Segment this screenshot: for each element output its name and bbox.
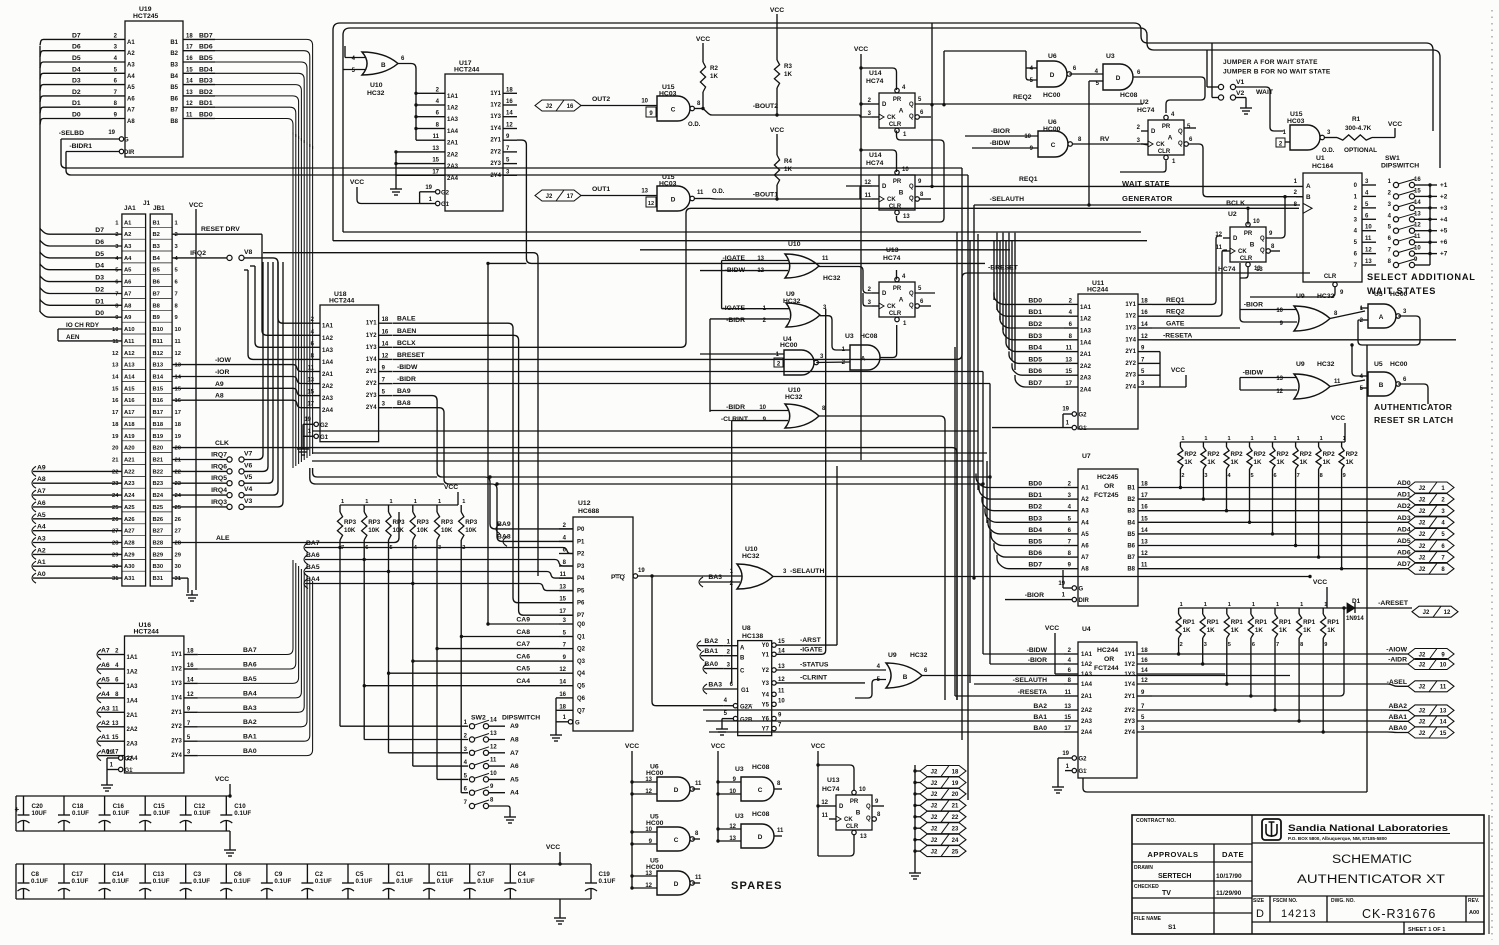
svg-text:BD3: BD3 [199, 78, 213, 85]
svg-text:17: 17 [1064, 726, 1071, 732]
wire U14-B D stub [846, 185, 872, 187]
svg-text:RP3: RP3 [344, 519, 357, 526]
svg-text:31: 31 [175, 576, 182, 582]
svg-text:17: 17 [1065, 381, 1072, 387]
svg-text:14: 14 [559, 680, 566, 686]
ground cap row1 [229, 831, 231, 845]
svg-text:Y5: Y5 [762, 702, 770, 708]
svg-text:A22: A22 [124, 469, 135, 475]
svg-text:BD6: BD6 [1028, 368, 1042, 375]
svg-text:J2: J2 [1419, 731, 1426, 737]
svg-text:IRQ3: IRQ3 [211, 499, 227, 506]
svg-text:U10: U10 [788, 387, 801, 394]
svg-text:2Y4: 2Y4 [490, 173, 501, 179]
svg-text:HC245: HC245 [1097, 474, 1118, 481]
wire BA8 drop [393, 408, 573, 542]
svg-text:G2: G2 [441, 191, 450, 197]
svg-text:B6: B6 [1127, 544, 1135, 550]
wire BD3 from U19 pin 14 [183, 84, 215, 86]
svg-text:B20: B20 [153, 446, 164, 452]
wire BD3 bus vertical [215, 85, 301, 141]
svg-text:+1: +1 [1440, 182, 1448, 189]
node tag J2/15 [1408, 727, 1454, 738]
svg-text:0.1UF: 0.1UF [356, 878, 373, 885]
svg-text:C: C [674, 837, 679, 844]
svg-text:16: 16 [1141, 310, 1148, 316]
wire U14-A CLR to U14-B CLR [897, 131, 945, 223]
svg-text:A4: A4 [127, 74, 135, 80]
svg-text:OUT2: OUT2 [592, 96, 610, 103]
svg-text:B7: B7 [170, 108, 178, 114]
svg-text:Q4: Q4 [577, 671, 586, 677]
node A8 tag at J1 pin 23 [32, 478, 36, 488]
wire BD6 from U19 pin 17 [183, 50, 215, 52]
svg-text:B9: B9 [153, 315, 161, 321]
svg-text:P0: P0 [577, 527, 585, 533]
Sandia logo [1262, 819, 1281, 840]
svg-text:C6: C6 [234, 871, 242, 878]
node +2 wait state tap [1428, 195, 1431, 198]
svg-text:12: 12 [559, 667, 566, 673]
wire A7 into U16 [97, 650, 101, 660]
svg-text:1: 1 [1297, 436, 1300, 442]
svg-text:29: 29 [175, 552, 182, 558]
node tag J2/23 [913, 827, 916, 830]
svg-text:13: 13 [778, 664, 785, 670]
svg-text:0.1UF: 0.1UF [234, 878, 251, 885]
switch SW2 pos 5 [469, 777, 474, 782]
svg-text:15: 15 [1440, 731, 1447, 737]
svg-text:-BIOR: -BIOR [1025, 592, 1044, 599]
svg-text:S1: S1 [1168, 924, 1176, 931]
capacitor C10 [225, 796, 227, 815]
wire BD7 from U19 pin 18 [183, 38, 215, 40]
svg-text:A14: A14 [124, 375, 135, 381]
svg-text:13: 13 [1256, 267, 1263, 273]
svg-text:28: 28 [112, 541, 119, 547]
svg-text:-ARST: -ARST [800, 637, 822, 644]
svg-text:A8: A8 [510, 737, 519, 744]
svg-text:C11: C11 [437, 871, 449, 878]
wire BA4 to U12 [305, 584, 573, 591]
svg-text:24: 24 [175, 493, 182, 499]
wire U9-A out to U3-A [820, 316, 850, 350]
wire BA6 to U12 [305, 560, 573, 567]
svg-text:A4: A4 [101, 691, 110, 698]
wire U4 input 2A4 [709, 731, 1064, 733]
svg-text:11: 11 [822, 813, 829, 819]
svg-text:1K: 1K [784, 71, 792, 78]
svg-text:IRQ6: IRQ6 [211, 463, 227, 470]
wire AD6 [1138, 556, 1408, 558]
svg-text:1K: 1K [710, 73, 718, 80]
wire D3 to U19 pin 6 [46, 84, 125, 86]
wire CA9 [488, 623, 559, 625]
svg-text:A19: A19 [124, 434, 135, 440]
svg-text:C19: C19 [599, 871, 611, 878]
wire -RESETA from U11 [1152, 339, 1456, 341]
wire -IOW J1 B13 to U18 [172, 365, 306, 372]
svg-text:A: A [899, 297, 904, 304]
svg-text:IRQ2: IRQ2 [190, 250, 206, 257]
svg-text:1A3: 1A3 [447, 117, 459, 123]
capacitor C20 [23, 796, 25, 815]
jumper V7 IRQ7 [172, 459, 227, 461]
wire mid pair right extension [490, 476, 990, 478]
wire U14-B PR [861, 150, 897, 172]
capacitor C6 [225, 864, 227, 883]
svg-text:10K: 10K [393, 527, 405, 534]
svg-text:U3: U3 [1106, 53, 1115, 60]
wire AEN J1 pin 11 [58, 340, 122, 342]
svg-text:Y1: Y1 [762, 652, 770, 658]
svg-text:B3: B3 [153, 244, 161, 250]
svg-text:JUMPER B FOR NO WAIT STATE: JUMPER B FOR NO WAIT STATE [1223, 69, 1331, 76]
svg-text:SW1: SW1 [1385, 155, 1400, 162]
svg-text:13: 13 [175, 363, 182, 369]
svg-text:D: D [839, 804, 844, 810]
svg-text:BA1: BA1 [1033, 714, 1047, 721]
svg-text:HC32: HC32 [742, 553, 760, 560]
svg-text:1Y1: 1Y1 [490, 91, 501, 97]
wire -SELAUTH upper [974, 204, 1300, 206]
capacitor C14 [104, 864, 106, 883]
svg-text:HC244: HC244 [1087, 287, 1108, 294]
node A1 tag at J1 pin 30 [32, 561, 36, 571]
svg-text:0.1UF: 0.1UF [437, 878, 454, 885]
svg-text:A7: A7 [127, 108, 135, 114]
svg-text:C16: C16 [113, 803, 125, 810]
wire -RESETA vertical [954, 347, 956, 696]
title block sheet row [1403, 922, 1405, 934]
clock triangle U1 [1303, 203, 1312, 213]
resistor RP2 4 [1226, 442, 1228, 447]
svg-text:2A1: 2A1 [127, 713, 139, 719]
svg-text:G1: G1 [1079, 426, 1088, 432]
svg-text:1: 1 [1251, 436, 1254, 442]
svg-text:1Y4: 1Y4 [1125, 337, 1136, 343]
node tag J2/24 [913, 838, 916, 841]
capacitor C11 [428, 864, 430, 883]
svg-text:B: B [903, 674, 908, 681]
svg-text:B19: B19 [153, 434, 164, 440]
wire U4 input 1A3 [1055, 673, 1064, 675]
svg-text:D2: D2 [72, 89, 81, 96]
svg-text:0.1UF: 0.1UF [31, 878, 48, 885]
node tag J2/22 [913, 815, 916, 818]
svg-text:CA8: CA8 [516, 629, 530, 636]
svg-text:CK: CK [1156, 142, 1165, 148]
svg-text:CHECKED: CHECKED [1134, 884, 1159, 890]
wire D2 to U19 pin 7 [46, 95, 125, 97]
svg-text:A1: A1 [101, 734, 110, 741]
node tag J2/25 [913, 849, 916, 852]
svg-text:1A2: 1A2 [127, 670, 139, 676]
svg-text:Y4: Y4 [762, 692, 770, 698]
svg-text:10: 10 [641, 99, 648, 105]
wire D1 to U19 pin 8 [46, 106, 125, 108]
svg-text:P5: P5 [577, 589, 585, 595]
svg-text:IRQ5: IRQ5 [211, 475, 227, 482]
wire D7 to J1 pin 2 [40, 228, 122, 234]
wire BALE [393, 323, 573, 603]
wire U4 input 2A3 [706, 720, 1064, 722]
svg-text:1: 1 [365, 499, 368, 505]
svg-text:RP1: RP1 [1303, 619, 1316, 626]
ground at U17 inputs [395, 184, 397, 189]
wire bottom return [1083, 778, 1367, 792]
svg-text:BD7: BD7 [1028, 562, 1042, 569]
svg-text:9: 9 [1343, 473, 1346, 479]
wire D1 to J1 pin 8 [40, 299, 122, 305]
svg-text:A30: A30 [124, 564, 135, 570]
svg-text:11: 11 [822, 256, 829, 262]
svg-text:A9: A9 [37, 464, 46, 471]
svg-text:C12: C12 [194, 803, 206, 810]
svg-text:HC00: HC00 [646, 820, 664, 827]
wire D2 to J1 pin 7 [40, 288, 122, 294]
svg-text:1Y1: 1Y1 [1125, 302, 1136, 308]
svg-text:B2: B2 [153, 232, 160, 238]
capacitor C8 [23, 864, 25, 883]
svg-text:WAIT STATES: WAIT STATES [1367, 286, 1436, 296]
IC U17 HCT244 [445, 74, 503, 211]
svg-text:G1: G1 [125, 768, 134, 774]
svg-text:1A3: 1A3 [127, 684, 139, 690]
svg-text:RP2: RP2 [1254, 451, 1267, 458]
svg-text:J2: J2 [1419, 532, 1426, 538]
svg-text:1A3: 1A3 [322, 348, 334, 354]
svg-text:D6: D6 [72, 44, 81, 51]
svg-text:BA0: BA0 [243, 748, 257, 755]
svg-text:A9: A9 [510, 723, 519, 730]
svg-text:U10: U10 [745, 546, 758, 553]
svg-text:HCT244: HCT244 [134, 629, 160, 636]
svg-text:14: 14 [175, 375, 182, 381]
svg-text:CLR: CLR [1324, 274, 1337, 280]
svg-text:9: 9 [1324, 642, 1327, 648]
node +1 wait state tap [1428, 183, 1431, 186]
svg-text:P7: P7 [577, 613, 585, 619]
svg-text:B31: B31 [153, 576, 164, 582]
svg-text:19: 19 [304, 417, 311, 423]
svg-text:BA2: BA2 [243, 719, 257, 726]
svg-text:HC164: HC164 [1312, 163, 1333, 170]
svg-text:BCLK: BCLK [1226, 200, 1245, 207]
svg-text:2A4: 2A4 [1080, 388, 1092, 394]
svg-text:2Y4: 2Y4 [366, 405, 377, 411]
wire AD0 [1138, 487, 1408, 489]
svg-text:10K: 10K [344, 527, 356, 534]
svg-text:1K: 1K [1231, 627, 1239, 634]
svg-text:2: 2 [175, 232, 178, 238]
wire cap row2 bottom bus [16, 898, 591, 900]
svg-text:D3: D3 [72, 78, 81, 85]
svg-text:1: 1 [1228, 436, 1231, 442]
svg-text:CK: CK [887, 115, 896, 121]
svg-text:B4: B4 [153, 256, 161, 262]
svg-text:A1: A1 [1081, 486, 1089, 492]
node A5 tag at J1 pin 26 [32, 514, 36, 524]
svg-text:VCC: VCC [770, 7, 784, 14]
wire REQ2 [915, 103, 1143, 105]
svg-text:7: 7 [115, 292, 118, 298]
resistor RP2 5 [1249, 442, 1251, 447]
svg-text:CLR: CLR [846, 824, 859, 830]
svg-text:WAIT STATE: WAIT STATE [1122, 179, 1170, 188]
svg-text:CK: CK [887, 304, 896, 310]
wire REQ2 from U11 [1152, 250, 1227, 316]
svg-text:10K: 10K [441, 527, 453, 534]
resistor RP2 3 [1202, 442, 1204, 447]
svg-text:14: 14 [778, 648, 785, 654]
svg-text:A6: A6 [127, 96, 135, 102]
svg-text:FILE NAME: FILE NAME [1134, 916, 1162, 922]
svg-text:BCLX: BCLX [397, 340, 416, 347]
svg-text:12: 12 [821, 800, 828, 806]
svg-text:1Y2: 1Y2 [1124, 662, 1135, 668]
svg-text:0.1UF: 0.1UF [234, 810, 251, 817]
svg-text:1Y4: 1Y4 [366, 357, 377, 363]
svg-text:19: 19 [1058, 581, 1065, 587]
node BA1 tag [700, 651, 704, 661]
svg-text:1A4: 1A4 [1081, 682, 1093, 688]
svg-text:B3: B3 [170, 63, 178, 69]
svg-text:10: 10 [490, 771, 497, 777]
svg-text:ABA1: ABA1 [1388, 714, 1407, 721]
svg-text:C13: C13 [153, 871, 165, 878]
wire -IGATE vertical [721, 261, 723, 309]
svg-text:A2: A2 [1081, 497, 1089, 503]
svg-text:11: 11 [865, 193, 872, 199]
svg-text:20: 20 [952, 792, 959, 798]
capacitor C13 [144, 864, 146, 883]
svg-text:BD1: BD1 [199, 100, 213, 107]
svg-text:13: 13 [1064, 704, 1071, 710]
svg-text:2A3: 2A3 [127, 742, 139, 748]
resistor RP3 4 [412, 505, 414, 512]
svg-text:12: 12 [112, 351, 118, 357]
svg-text:A: A [861, 356, 866, 363]
svg-text:A6: A6 [510, 763, 519, 770]
svg-text:13: 13 [559, 585, 566, 591]
capacitor C2 [306, 864, 308, 883]
svg-text:R2: R2 [710, 65, 718, 72]
wire A9 J1 B15 to U18 [172, 388, 306, 395]
svg-text:1Y2: 1Y2 [490, 103, 501, 109]
svg-text:JB1: JB1 [153, 205, 165, 212]
svg-text:+6: +6 [1440, 239, 1448, 246]
svg-text:2A1: 2A1 [1080, 352, 1092, 358]
svg-text:A: A [740, 646, 745, 652]
node tag J2/14 [1408, 716, 1454, 727]
svg-text:19: 19 [1062, 407, 1069, 413]
svg-text:P2: P2 [577, 552, 585, 558]
resistor RP2 2 [1179, 442, 1181, 447]
svg-text:J2: J2 [931, 838, 938, 844]
svg-text:BD6: BD6 [199, 44, 213, 51]
svg-text:HC74: HC74 [1137, 107, 1155, 114]
svg-text:PR: PR [1162, 124, 1171, 130]
svg-text:-BIDR: -BIDR [726, 317, 745, 324]
wire U9-B pin5 loop [855, 680, 886, 699]
svg-text:A6: A6 [1081, 544, 1089, 550]
svg-text:J2: J2 [1419, 709, 1426, 715]
wire -BOUT2 [694, 108, 703, 110]
svg-text:A7: A7 [37, 488, 46, 495]
svg-text:1Y2: 1Y2 [366, 333, 377, 339]
svg-text:16: 16 [1141, 658, 1148, 664]
wire CA4 [364, 685, 559, 687]
svg-text:-CLRINT: -CLRINT [800, 675, 828, 682]
wire BD bundle verticals [993, 241, 995, 300]
wire CA5 [389, 672, 559, 674]
svg-text:2A1: 2A1 [322, 372, 334, 378]
svg-text:1: 1 [341, 499, 344, 505]
wire U5-A feedback [1358, 316, 1420, 345]
svg-text:+5: +5 [1440, 228, 1448, 235]
wire AD7 [1138, 568, 1408, 570]
svg-text:13: 13 [645, 777, 652, 783]
svg-text:18: 18 [506, 87, 513, 93]
svg-text:HC32: HC32 [823, 275, 841, 282]
wire A5 into U16 [97, 678, 101, 688]
node tag J2/19 [913, 781, 916, 784]
svg-text:HC74: HC74 [1218, 266, 1236, 273]
jumper V2 [1218, 95, 1223, 100]
svg-text:16: 16 [567, 104, 574, 110]
node AD7 tag J2/8 [1408, 563, 1454, 574]
wire U1 B input [1296, 196, 1303, 198]
wire U17 input 3 [416, 116, 431, 118]
svg-text:18: 18 [559, 704, 566, 710]
svg-text:11: 11 [695, 875, 702, 881]
svg-text:-SELAUTH: -SELAUTH [1013, 677, 1047, 684]
svg-text:1Y3: 1Y3 [171, 681, 182, 687]
svg-text:2A2: 2A2 [1080, 364, 1092, 370]
gate U9-B HC32 [886, 663, 922, 688]
svg-text:1K: 1K [1231, 459, 1239, 466]
svg-text:Q: Q [1260, 248, 1265, 254]
svg-text:BD3: BD3 [1028, 515, 1042, 522]
svg-text:1K: 1K [1254, 459, 1262, 466]
svg-text:G1: G1 [1079, 769, 1088, 775]
svg-text:VCC: VCC [350, 179, 364, 186]
svg-text:13: 13 [1440, 709, 1447, 715]
node AD6 tag J2/7 [1408, 552, 1454, 563]
wire U4 input 1A2 [990, 663, 1064, 665]
svg-text:A4: A4 [510, 790, 519, 797]
svg-text:A7: A7 [510, 750, 519, 757]
wire data bus spine D0-D7 [39, 46, 41, 312]
svg-text:J2: J2 [1419, 685, 1426, 691]
svg-text:VCC: VCC [811, 743, 825, 750]
switch SW1 pos 6 [1393, 240, 1398, 245]
wire -IOR J1 B14 to U18 [172, 377, 306, 384]
svg-text:C8: C8 [31, 871, 39, 878]
resistor RP2 6 [1272, 442, 1274, 447]
svg-text:OR: OR [1104, 483, 1114, 490]
svg-text:10: 10 [1365, 225, 1372, 231]
wire D5 to U19 pin 4 [46, 61, 125, 63]
svg-text:1A3: 1A3 [1080, 329, 1092, 335]
wire A0 into U16 [97, 751, 101, 761]
svg-text:1K: 1K [1207, 627, 1215, 634]
svg-text:DWG. NO.: DWG. NO. [1331, 898, 1355, 904]
svg-text:27: 27 [175, 529, 181, 535]
wire U17 input 2A2 [396, 151, 431, 153]
svg-text:HCT244: HCT244 [329, 298, 355, 305]
